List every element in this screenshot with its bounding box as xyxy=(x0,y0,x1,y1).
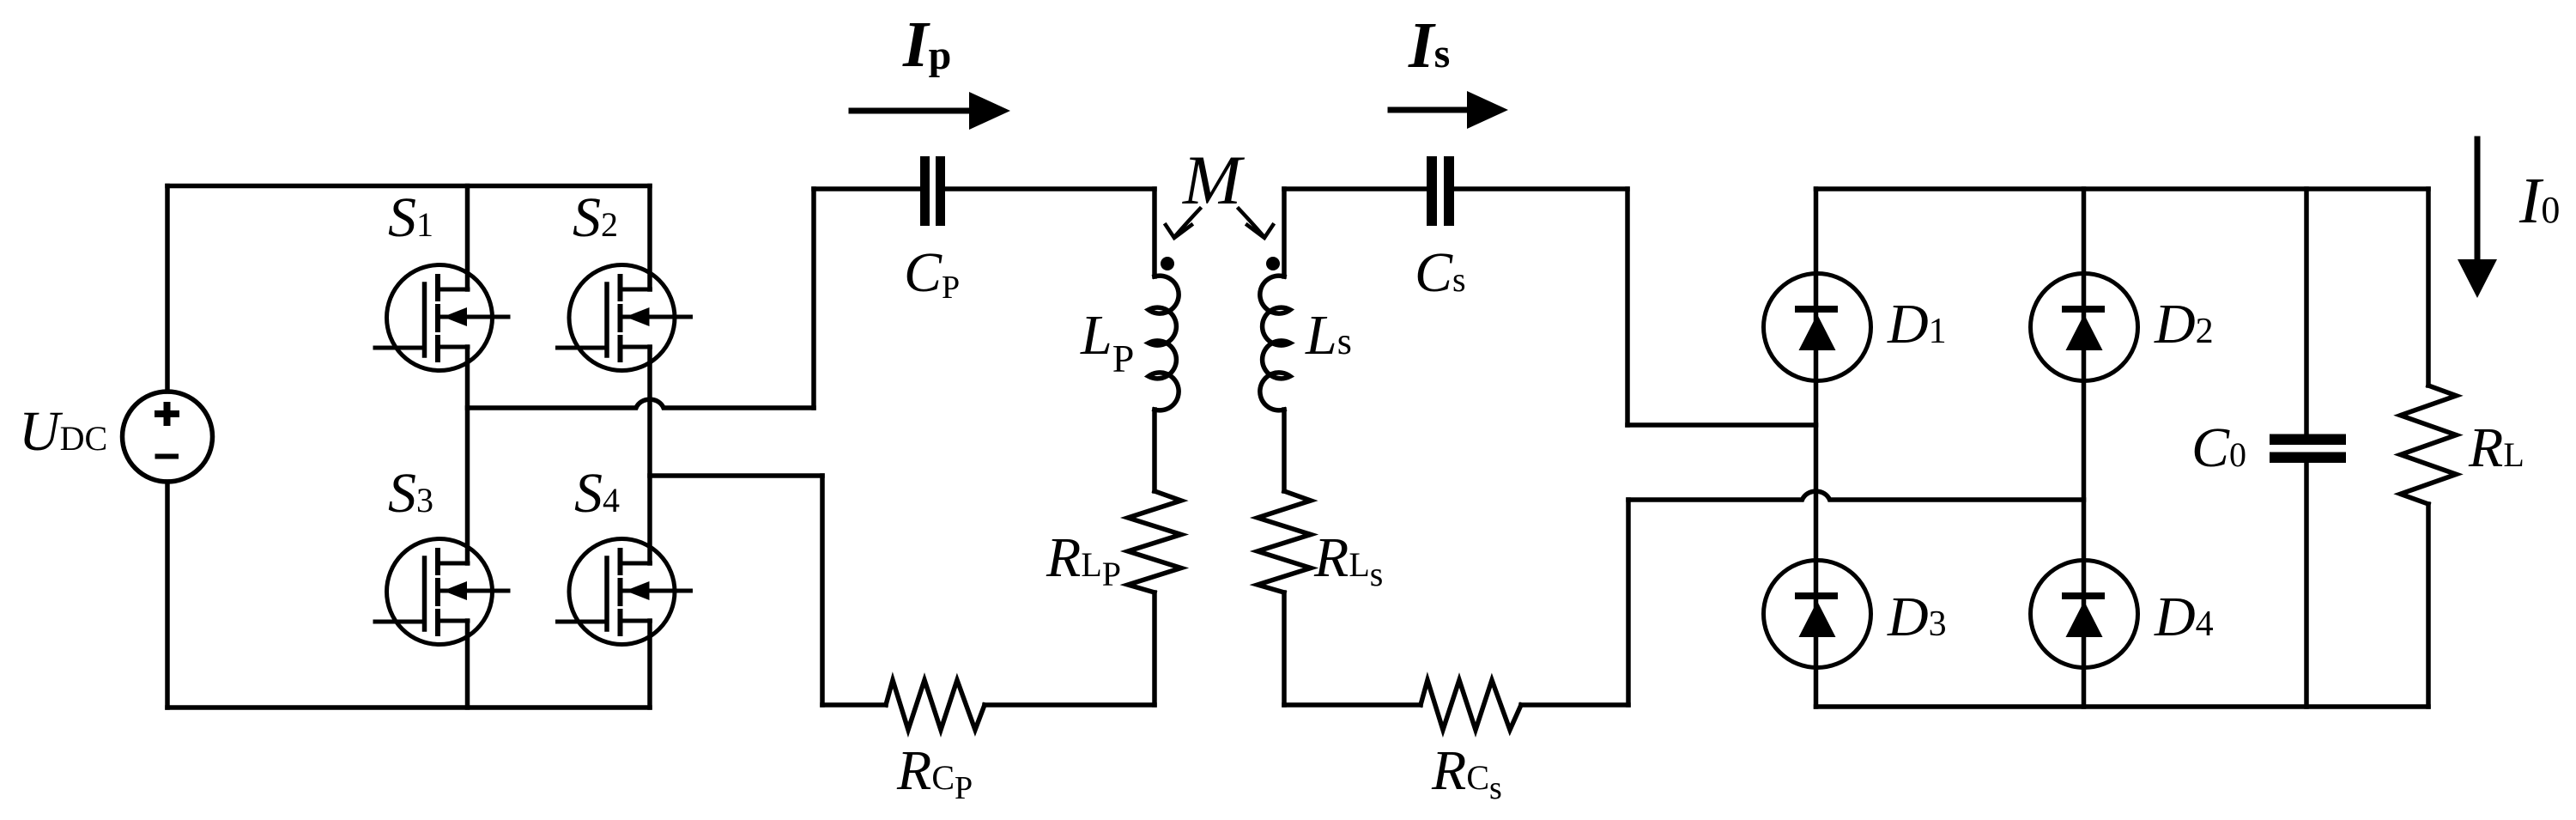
wire S3 source xyxy=(465,621,470,708)
svg-text:D1: D1 xyxy=(1887,293,1947,355)
resistor RLs xyxy=(1258,491,1311,592)
transistor S2 xyxy=(558,265,691,371)
current arrow Is xyxy=(1391,91,1508,129)
wire RLs to secondary bottom rail xyxy=(1282,592,1287,705)
voltage source UDC xyxy=(123,392,213,482)
svg-text:LP: LP xyxy=(1080,304,1134,380)
svg-text:Ip: Ip xyxy=(902,9,951,81)
svg-text:Ls: Ls xyxy=(1305,304,1352,367)
svg-text:RCP: RCP xyxy=(896,739,973,806)
svg-text:S1: S1 xyxy=(388,186,433,249)
wire S4 source xyxy=(647,621,652,708)
wire secondary top rail right of Cs xyxy=(1454,186,1627,191)
wire primary bottom rail right xyxy=(985,702,1155,708)
diode D1 xyxy=(1764,274,1871,381)
wire primary top rail left of Cp xyxy=(814,186,920,191)
wire S2 source to S4 drain (node B) xyxy=(647,347,652,563)
diode D2 xyxy=(2031,274,2138,381)
svg-text:S2: S2 xyxy=(573,186,618,249)
inductor Lp xyxy=(1149,276,1179,410)
resistor RCs xyxy=(1421,680,1521,730)
coupling arrow right xyxy=(1239,209,1273,238)
capacitor Cs xyxy=(1427,156,1454,226)
wire C0 bottom lead xyxy=(2304,463,2309,707)
svg-text:RCs: RCs xyxy=(1431,739,1502,806)
wire S2 drain xyxy=(647,186,652,290)
wire primary top rail right of Cp xyxy=(945,186,1155,191)
wire inverter top rail xyxy=(167,184,650,189)
wire primary coil top lead xyxy=(1152,189,1157,276)
svg-text:CP: CP xyxy=(904,241,960,306)
dot secondary winding polarity xyxy=(1266,257,1280,270)
capacitor C0 xyxy=(2270,434,2346,464)
wire secondary top rail left of Cs xyxy=(1284,186,1427,191)
current arrow I0 xyxy=(2458,139,2497,298)
wire rectifier right branch (D2 D4) xyxy=(2082,189,2087,707)
wire node B to primary loop xyxy=(650,473,822,478)
wire secondary right vertical upper xyxy=(1625,189,1630,425)
wire secondary coil top lead xyxy=(1282,189,1287,276)
inductor Ls xyxy=(1260,276,1290,410)
dot primary winding polarity xyxy=(1161,257,1174,270)
resistor RCp xyxy=(886,680,985,730)
svg-text:RL: RL xyxy=(2468,416,2524,479)
wire primary bottom rail left xyxy=(822,702,886,708)
wire secondary to rectifier bottom terminal (with crossover hop) xyxy=(1628,491,2084,500)
wire RLp to primary bottom rail xyxy=(1152,592,1157,705)
svg-text:D3: D3 xyxy=(1887,586,1947,648)
svg-text:Cs: Cs xyxy=(1415,241,1466,304)
transistor S1 xyxy=(375,265,508,371)
wire secondary bottom rail right xyxy=(1521,702,1628,708)
wire inverter bottom rail xyxy=(167,705,650,710)
wire secondary right vertical lower xyxy=(1626,500,1631,705)
wire C0 top lead xyxy=(2304,189,2309,434)
svg-text:M: M xyxy=(1182,141,1246,219)
transistor S4 xyxy=(558,539,691,645)
svg-text:D4: D4 xyxy=(2154,586,2214,648)
capacitor Cp xyxy=(920,156,945,226)
wire primary left vertical lower xyxy=(820,476,825,705)
svg-text:C0: C0 xyxy=(2191,416,2246,479)
wire left vertical top (UDC + to top rail) xyxy=(165,186,170,392)
wire S1 source to S3 drain (node A) xyxy=(465,347,470,563)
wire node A to primary loop (with crossover hop) xyxy=(468,399,815,408)
current arrow Ip xyxy=(852,92,1010,130)
svg-text:UDC: UDC xyxy=(19,400,107,463)
wire RL top lead xyxy=(2426,189,2431,386)
coupling arrow left xyxy=(1166,209,1200,238)
wire secondary to rectifier top terminal xyxy=(1627,422,1816,428)
wire rectifier left branch (D1 D3) xyxy=(1814,189,1819,707)
resistor RL xyxy=(2401,386,2457,504)
wire primary coil to RLp xyxy=(1152,410,1157,491)
svg-text:I0: I0 xyxy=(2518,165,2560,237)
svg-text:Is: Is xyxy=(1408,9,1450,82)
wire secondary bottom rail left xyxy=(1284,702,1421,708)
wire primary left vertical upper xyxy=(811,189,816,408)
diode D4 xyxy=(2031,561,2138,668)
svg-text:RLP: RLP xyxy=(1046,526,1121,593)
svg-text:S4: S4 xyxy=(574,462,620,525)
wire rectifier top rail xyxy=(1816,186,2429,191)
svg-text:D2: D2 xyxy=(2154,293,2214,355)
wire RL bottom lead xyxy=(2426,504,2431,707)
resistor RLp xyxy=(1128,491,1181,592)
wire secondary coil to RLs xyxy=(1282,410,1287,491)
wire S1 drain xyxy=(465,186,470,290)
diode D3 xyxy=(1764,561,1871,668)
wire left vertical bottom (UDC - to bottom rail) xyxy=(165,482,170,708)
svg-text:RLs: RLs xyxy=(1313,526,1383,593)
wire rectifier bottom rail xyxy=(1816,704,2429,709)
svg-text:S3: S3 xyxy=(388,462,433,525)
transistor S3 xyxy=(375,539,508,645)
